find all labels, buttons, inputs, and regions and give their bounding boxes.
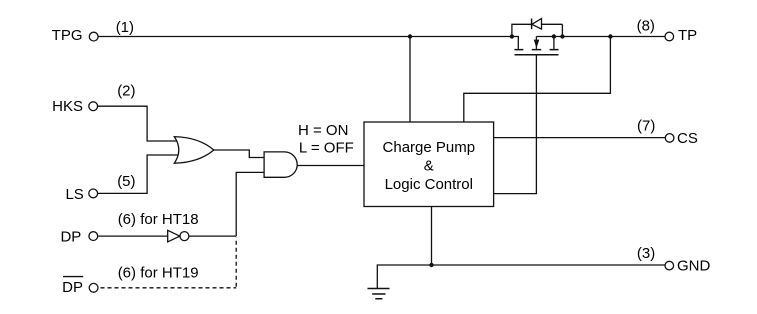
svg-text:LS: LS: [65, 186, 83, 203]
svg-text:TP: TP: [678, 27, 697, 44]
svg-text:CS: CS: [677, 130, 698, 147]
svg-text:(2): (2): [117, 83, 135, 100]
svg-text:H = ON: H = ON: [298, 122, 348, 139]
svg-text:DP: DP: [60, 229, 81, 246]
svg-text:DP: DP: [62, 279, 83, 296]
svg-text:(8): (8): [637, 18, 655, 35]
svg-text:&: &: [424, 158, 434, 175]
svg-text:L = OFF: L = OFF: [299, 139, 354, 156]
svg-text:(1): (1): [116, 19, 134, 36]
svg-text:(5): (5): [117, 173, 135, 190]
svg-text:(6) for HT19: (6) for HT19: [118, 265, 199, 282]
svg-text:Logic Control: Logic Control: [385, 176, 473, 193]
svg-text:HKS: HKS: [52, 98, 83, 115]
svg-text:TPG: TPG: [52, 27, 83, 44]
svg-text:(6) for HT18: (6) for HT18: [118, 211, 199, 228]
svg-text:Charge Pump: Charge Pump: [383, 139, 476, 156]
svg-text:GND: GND: [677, 257, 711, 274]
svg-text:(7): (7): [637, 117, 655, 134]
svg-text:(3): (3): [637, 245, 655, 262]
